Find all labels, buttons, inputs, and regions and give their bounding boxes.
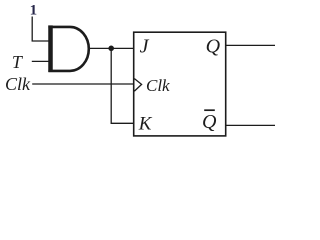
wire: T to AND gate bottom input <box>32 60 50 62</box>
svg-text:K: K <box>138 113 153 134</box>
wire: junction down to K input <box>111 48 134 123</box>
clock wedge <box>134 79 141 92</box>
wire: Clk to flip-flop clock input <box>32 83 134 85</box>
wire: AND output to J input <box>88 47 134 49</box>
wire: constant 1 down to AND gate top input <box>32 17 49 42</box>
wire: Q output <box>226 44 275 46</box>
svg-text:J: J <box>140 36 150 58</box>
svg-text:1: 1 <box>30 3 38 19</box>
node: junction dot <box>108 46 114 52</box>
svg-text:Clk: Clk <box>5 74 31 94</box>
wire: Q-bar output <box>226 124 275 126</box>
svg-text:Q: Q <box>206 35 221 57</box>
flip-flop U2 box <box>134 32 226 136</box>
svg-text:Q: Q <box>202 111 217 133</box>
svg-text:Clk: Clk <box>146 76 170 95</box>
overline of Q-bar <box>204 109 215 111</box>
AND gate U1 <box>48 25 53 72</box>
